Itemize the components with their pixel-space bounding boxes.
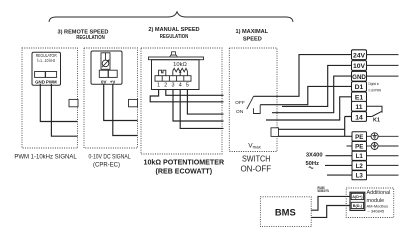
svg-text:D1: D1	[355, 84, 364, 91]
wire pot pin 4	[180, 90, 223, 129]
dashed option box 4 (switch)	[229, 48, 277, 152]
potentiometer body	[152, 60, 200, 90]
svg-text:1: 1	[157, 83, 160, 89]
svg-text:ON-OFF: ON-OFF	[240, 164, 271, 173]
supply wire to L3	[327, 174, 352, 176]
wire pot pin 1	[150, 90, 223, 102]
terminal PE (bottom)	[352, 142, 367, 151]
cable gland tab switch box	[271, 128, 279, 137]
pin numbers 1 2 3 4 5	[157, 83, 189, 89]
overbrace spanning sections	[49, 12, 293, 22]
svg-text:3X400: 3X400	[306, 152, 323, 158]
terminal 11	[352, 101, 367, 111]
svg-text:f=1...10 kHz: f=1...10 kHz	[37, 58, 55, 63]
svg-text:1) MAXIMAL: 1) MAXIMAL	[235, 29, 268, 35]
svg-text:B(D-): B(D-)	[353, 204, 363, 208]
dashed option box 3 (10k potentiometer)	[141, 48, 222, 154]
wire L2 out	[367, 164, 399, 166]
svg-text:14: 14	[355, 114, 363, 121]
wire 24V out	[367, 54, 399, 56]
wire L1 out	[367, 155, 399, 157]
terminal L2	[352, 161, 367, 170]
wire BMS to A(D+)	[311, 196, 350, 210]
wire L3 out	[367, 174, 399, 176]
wiper arrow to terminal 4	[179, 70, 182, 76]
wire pot pin 5	[187, 90, 223, 115]
svg-text:10kΩ POTENTIOMETER: 10kΩ POTENTIOMETER	[144, 159, 225, 167]
svg-text:ON: ON	[236, 109, 244, 115]
potentiometer knob	[170, 52, 178, 57]
section label 2) MANUAL SPEED REGULATION	[148, 27, 199, 40]
terminal L1	[352, 151, 367, 160]
module terminal A(D+)	[351, 193, 363, 199]
svg-text:0-10V DC SIGNAL: 0-10V DC SIGNAL	[89, 155, 132, 161]
wire tab to 14 and PE	[279, 117, 353, 137]
svg-text:2: 2	[164, 83, 167, 89]
svg-text:+V: +V	[110, 79, 116, 84]
BMS box	[260, 197, 311, 227]
svg-text:E1: E1	[355, 95, 364, 102]
svg-text:50Hz: 50Hz	[305, 161, 319, 167]
switch S1 OFF/ON	[235, 96, 260, 115]
svg-text:(CPR-EC): (CPR-EC)	[93, 162, 120, 168]
svg-text:GND: GND	[35, 79, 45, 84]
svg-text:24V: 24V	[353, 52, 366, 59]
label Additional module AM-Modbus 340845	[367, 190, 391, 214]
svg-text:L3: L3	[356, 173, 364, 180]
svg-text:OFF: OFF	[235, 100, 245, 106]
supply wire to PE bottom	[347, 145, 353, 147]
section label 3) REMOTE SPEED REGULATION	[58, 30, 109, 42]
wire pot pin 2	[166, 90, 224, 96]
supply wire to L1	[326, 155, 353, 157]
module terminal B(D-)	[351, 202, 363, 208]
terminal strip 1-5	[155, 76, 191, 82]
svg-text:PWM 1-10kHz SIGNAL: PWM 1-10kHz SIGNAL	[14, 155, 77, 161]
svg-text:10V: 10V	[353, 63, 366, 70]
terminal L3	[352, 171, 367, 180]
wire pot pin 3	[173, 90, 224, 122]
regulator U1	[32, 52, 61, 85]
wire switch to 24V	[254, 55, 352, 97]
svg-text:10kΩ: 10kΩ	[173, 62, 187, 68]
wire regulator GND	[40, 84, 77, 122]
svg-text:BMS: BMS	[275, 207, 296, 218]
wire regulator PWM	[51, 84, 77, 136]
svg-text:L1: L1	[356, 153, 364, 160]
cable gland tab box1	[69, 99, 78, 106]
svg-text:A(D+): A(D+)	[352, 195, 363, 199]
terminal 14	[352, 112, 367, 122]
label ~	[309, 167, 313, 169]
svg-text:2) MANUAL SPEED: 2) MANUAL SPEED	[148, 27, 199, 33]
0-10V source device	[91, 51, 122, 84]
terminal GND	[352, 71, 367, 81]
wire to 10V	[282, 65, 352, 106]
wire to E1	[266, 97, 352, 120]
svg-text:Digital In: Digital In	[369, 82, 380, 86]
svg-text:3: 3	[172, 83, 175, 89]
svg-text:PWM: PWM	[46, 79, 57, 84]
terminal 24V	[352, 50, 367, 60]
svg-text:GND: GND	[352, 74, 366, 81]
wire switch to D1	[260, 86, 351, 104]
earth symbol PE top	[367, 133, 399, 140]
module terminal container	[350, 192, 365, 210]
svg-text:4: 4	[179, 83, 182, 89]
supply wire to L2	[325, 164, 352, 166]
additional module dashed box	[346, 188, 394, 218]
svg-text:REGULATION: REGULATION	[160, 34, 189, 40]
cable gland tab box2	[129, 99, 138, 106]
svg-text:K1: K1	[373, 118, 380, 124]
terminal E1	[352, 92, 367, 102]
svg-text:– 340845: – 340845	[368, 208, 385, 213]
svg-text:0-10V/PWM: 0-10V/PWM	[369, 89, 382, 93]
dashed option box 1 (PWM signal)	[22, 48, 78, 148]
wire 0V	[104, 84, 138, 121]
terminal 10V	[352, 61, 367, 71]
svg-text:PE: PE	[355, 134, 363, 141]
wire BMS to B(D-)	[311, 206, 350, 218]
svg-text:0V: 0V	[101, 79, 106, 84]
dashed option box 2 (0-10V signal)	[84, 48, 138, 148]
svg-text:PE: PE	[355, 144, 363, 151]
svg-text:11: 11	[355, 104, 362, 111]
svg-text:Additional: Additional	[367, 190, 391, 196]
earth symbol PE bottom	[367, 143, 399, 150]
terminal PE (top)	[352, 132, 367, 141]
wire to GND	[272, 76, 352, 113]
potentiometer top plate	[149, 57, 204, 60]
wire 10V out	[367, 64, 399, 66]
svg-text:SWITCH: SWITCH	[242, 154, 271, 163]
section label 1) MAXIMAL SPEED	[235, 29, 268, 42]
wire +V	[113, 84, 138, 136]
wire GND out	[367, 75, 399, 77]
svg-text:(REB ECOWATT): (REB ECOWATT)	[155, 167, 212, 175]
resistor R (pot track) terminals 3-5	[173, 68, 188, 75]
svg-text:SPEED: SPEED	[243, 36, 262, 42]
svg-text:5: 5	[186, 83, 189, 89]
svg-text:L2: L2	[356, 163, 364, 170]
jumper link terminals 1-2	[159, 70, 166, 76]
relay contact K1 between 11 and 14	[367, 106, 383, 123]
svg-text:MODBUS RTU: MODBUS RTU	[318, 189, 330, 193]
svg-text:REGULATION: REGULATION	[76, 35, 105, 41]
terminal D1	[352, 82, 367, 92]
